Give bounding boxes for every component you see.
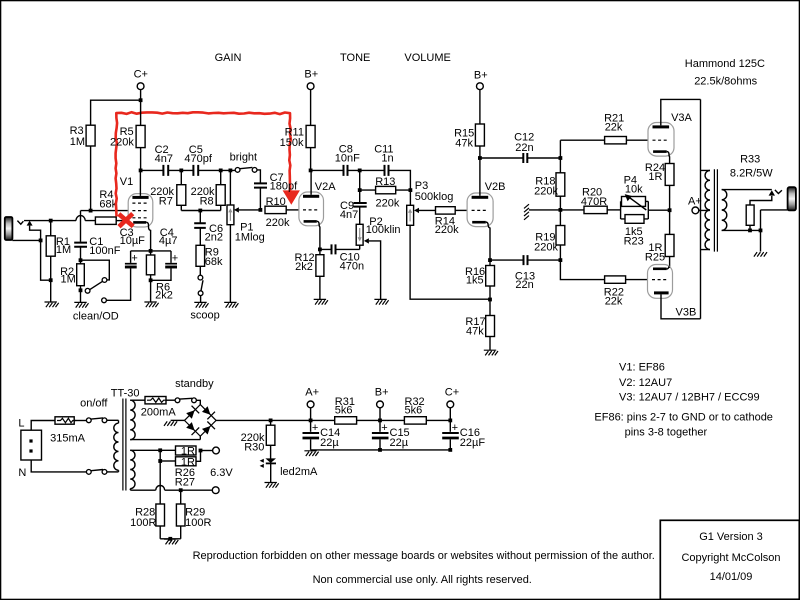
node R2 bottom <box>79 288 83 292</box>
switch standby <box>175 398 200 405</box>
potentiometer P2 <box>356 224 363 249</box>
red arrowhead <box>283 190 300 204</box>
svg-text:1n: 1n <box>381 152 393 164</box>
diode D1 <box>185 406 199 420</box>
svg-text:10k: 10k <box>625 184 643 196</box>
svg-text:R10: R10 <box>266 196 286 208</box>
speaker jack tip arrow <box>769 190 775 195</box>
ground under LED <box>265 483 279 488</box>
node R15 bottom <box>478 156 482 160</box>
svg-text:100nF: 100nF <box>89 245 120 257</box>
tube V3B <box>648 265 701 319</box>
wire anode rail <box>141 169 236 171</box>
input jack J1 <box>5 217 41 240</box>
wire cap ground bus <box>311 449 451 451</box>
node heater B <box>158 459 162 463</box>
red X mark <box>119 214 133 227</box>
ground under R1 <box>45 302 59 307</box>
resistor R21 <box>560 137 648 144</box>
capacitor C8 <box>344 165 348 176</box>
switch clean/OD <box>85 268 130 302</box>
svg-text:200mA: 200mA <box>141 407 177 419</box>
switch scoop <box>198 266 203 302</box>
node C15 ground <box>378 448 382 452</box>
resistor R30 <box>266 420 275 458</box>
resistor R28 <box>156 504 165 539</box>
svg-text:V3A: V3A <box>671 112 692 124</box>
svg-text:22µF: 22µF <box>460 437 486 449</box>
node R7 top <box>179 169 183 173</box>
svg-text:22k: 22k <box>605 296 623 308</box>
svg-text:150k: 150k <box>280 137 304 149</box>
terminal A+ <box>688 196 702 214</box>
svg-text:bright: bright <box>230 151 258 163</box>
resistor R29 <box>176 490 185 539</box>
switch on/off pole N <box>86 470 118 475</box>
wire jack sleeve down <box>760 210 762 252</box>
svg-text:V1: EF86: V1: EF86 <box>619 361 665 373</box>
resistor R32 <box>404 417 426 424</box>
svg-text:R23: R23 <box>624 236 644 248</box>
resistor R3 <box>86 125 95 146</box>
svg-text:2k2: 2k2 <box>295 261 313 273</box>
wire N <box>31 460 86 472</box>
svg-text:100klin: 100klin <box>366 224 401 236</box>
svg-text:220k: 220k <box>534 185 558 197</box>
capacitor C2 <box>163 165 168 176</box>
svg-text:+: + <box>452 422 458 434</box>
svg-text:TONE: TONE <box>340 52 370 64</box>
svg-text:8.2R/5W: 8.2R/5W <box>730 167 773 179</box>
supply terminal B+ <box>474 70 488 124</box>
node R26 right <box>199 449 203 453</box>
resistor R4 <box>95 217 116 224</box>
svg-text:100R: 100R <box>185 517 211 529</box>
ground under P1 <box>224 302 238 307</box>
resistor R11 <box>306 125 315 170</box>
node C12 right <box>559 156 563 160</box>
node R13 left <box>358 188 362 192</box>
resistor R9 <box>196 245 205 266</box>
transformer T1 core <box>123 399 126 491</box>
wire heater B to R27 <box>160 460 175 462</box>
chassis ground bridge <box>164 421 177 426</box>
svg-text:Copyright McColson: Copyright McColson <box>681 552 780 564</box>
node jack sleeve <box>39 239 43 243</box>
svg-text:scoop: scoop <box>190 310 219 322</box>
svg-text:47k: 47k <box>455 138 473 150</box>
supply terminal C+ <box>134 69 148 101</box>
wire sleeve to ground <box>41 240 51 280</box>
svg-text:C+: C+ <box>134 69 148 81</box>
node ground join <box>168 537 172 541</box>
resistor R13 <box>360 186 411 193</box>
svg-text:1Mlog: 1Mlog <box>235 232 265 244</box>
svg-text:V3B: V3B <box>676 306 697 318</box>
svg-text:+: + <box>381 422 387 434</box>
svg-text:Non commercial use only. All r: Non commercial use only. All rights rese… <box>313 574 532 586</box>
node A+ <box>309 419 313 423</box>
svg-text:B+: B+ <box>304 69 318 81</box>
wire main DC rail <box>216 419 450 421</box>
diode LED <box>260 458 276 482</box>
ground under R6 <box>144 302 158 307</box>
svg-text:VOLUME: VOLUME <box>404 52 450 64</box>
svg-text:clean/OD: clean/OD <box>73 310 119 322</box>
terminal 6.3V B <box>212 487 219 494</box>
P2 wiper arrow <box>364 238 381 299</box>
resistor R20 <box>560 206 620 213</box>
svg-text:V2: 12AU7: V2: 12AU7 <box>619 377 672 389</box>
svg-text:315mA: 315mA <box>50 432 86 444</box>
node R6 bottom <box>149 278 153 282</box>
svg-text:R30: R30 <box>244 441 264 453</box>
node V2B cathode <box>488 258 492 262</box>
svg-text:N: N <box>18 467 26 479</box>
svg-text:14/01/09: 14/01/09 <box>710 571 753 583</box>
supply terminal B+ <box>304 69 318 126</box>
svg-text:GAIN: GAIN <box>215 52 242 64</box>
svg-text:B+: B+ <box>375 386 389 398</box>
resistor R5 <box>136 100 145 170</box>
resistor R7 <box>177 170 186 210</box>
node heater A <box>158 448 162 452</box>
svg-text:68k: 68k <box>205 256 223 268</box>
ground under R28 R29 <box>164 539 178 544</box>
wire humdinger <box>159 450 161 461</box>
capacitor C3 <box>125 251 138 267</box>
capacitor C16 <box>442 420 459 450</box>
switch on/off pole L <box>74 418 118 423</box>
node C+ rail <box>448 419 452 423</box>
node R13 right <box>409 188 413 192</box>
svg-text:4n7: 4n7 <box>155 153 173 165</box>
node C6 top <box>198 209 202 213</box>
wire C12 row <box>480 157 561 159</box>
svg-text:220k: 220k <box>376 198 400 210</box>
svg-text:R7: R7 <box>159 195 173 207</box>
resistor R15 <box>475 124 484 158</box>
P1 wiper arrow <box>234 207 261 212</box>
svg-text:V2A: V2A <box>315 181 336 193</box>
resistor R17 <box>486 300 495 351</box>
wire down to R28 <box>159 461 161 504</box>
diode bridge <box>185 405 217 437</box>
svg-text:1R: 1R <box>648 171 662 183</box>
svg-text:EF86: pins 2-7 to GND or to ca: EF86: pins 2-7 to GND or to cathode <box>594 412 773 424</box>
wire C13 row <box>490 259 560 261</box>
svg-text:R27: R27 <box>175 477 195 489</box>
wire V2A cathode row <box>320 248 360 250</box>
svg-text:P3: P3 <box>415 180 428 192</box>
terminal C+ rail <box>445 386 459 420</box>
svg-text:470n: 470n <box>340 261 364 273</box>
copyright box <box>660 520 799 599</box>
resistor R6 <box>146 251 154 302</box>
terminal B+ rail <box>375 386 389 420</box>
svg-text:470pf: 470pf <box>184 153 212 165</box>
wire R27 to R26 join <box>196 451 201 462</box>
svg-text:B+: B+ <box>474 70 488 82</box>
svg-text:V2B: V2B <box>485 181 506 193</box>
resistor R14 <box>436 207 468 214</box>
wire R28 R29 join <box>160 538 181 540</box>
svg-text:22n: 22n <box>515 142 533 154</box>
wire C1 to switch contact <box>81 260 110 280</box>
resistor R26 <box>176 446 197 458</box>
svg-text:10µF: 10µF <box>120 235 146 247</box>
svg-text:1M: 1M <box>61 274 76 286</box>
tube V2B <box>467 158 493 260</box>
svg-text:2k2: 2k2 <box>155 290 173 302</box>
potentiometer P4 with R23 <box>621 194 670 223</box>
terminal A+ rail <box>305 386 319 420</box>
wire C8 node down <box>359 170 361 203</box>
svg-text:470R: 470R <box>581 196 607 208</box>
svg-text:1k5: 1k5 <box>466 275 484 287</box>
node C7 R10 <box>259 208 263 212</box>
svg-text:180pf: 180pf <box>270 181 298 193</box>
node R1 top <box>49 219 53 223</box>
svg-text:A+: A+ <box>305 386 319 398</box>
resistor R31 <box>335 417 357 424</box>
diode D2 <box>201 405 215 419</box>
capacitor C10 <box>332 244 336 254</box>
svg-text:Reproduction forbidden on othe: Reproduction forbidden on other message … <box>193 550 655 562</box>
node cathode mid <box>668 208 672 212</box>
ground under R17 <box>484 350 498 355</box>
svg-text:+: + <box>312 422 318 434</box>
node divider mid <box>559 208 563 212</box>
node R16 bottom <box>488 298 492 302</box>
ground under R2 <box>74 302 88 307</box>
capacitor C5 <box>193 165 198 176</box>
diode D4 <box>201 422 215 436</box>
node R8 top <box>219 169 223 173</box>
capacitor C6 <box>194 211 206 246</box>
node X <box>89 209 93 213</box>
svg-text:22.5k/8ohms: 22.5k/8ohms <box>694 76 757 88</box>
terminal 6.3V A <box>213 447 220 454</box>
capacitor C13 <box>524 255 528 265</box>
resistor R8 <box>216 170 225 210</box>
svg-text:500klog: 500klog <box>415 191 454 203</box>
tube V1 <box>128 170 153 251</box>
P3 wiper arrow <box>414 208 436 213</box>
resistor R25 <box>665 210 674 268</box>
transformer T2 secondary <box>722 190 772 231</box>
ground under R12 <box>314 299 328 304</box>
svg-text:pins 3-8 together: pins 3-8 together <box>625 426 708 438</box>
svg-text:22µ: 22µ <box>320 437 339 449</box>
node heater C <box>179 488 183 492</box>
wire R7 R8 bottoms <box>181 210 220 212</box>
capacitor C9 <box>353 203 366 224</box>
svg-text:1M: 1M <box>56 244 71 256</box>
transformer T1 secondary HT <box>130 400 200 439</box>
svg-text:220k: 220k <box>110 136 134 148</box>
svg-text:4µ7: 4µ7 <box>159 235 178 247</box>
tube V2A <box>299 170 324 249</box>
resistor R16 <box>486 260 495 299</box>
transformer T2 primary <box>699 170 710 249</box>
resistor R27 <box>176 456 197 468</box>
wire V1 cathode bus <box>131 250 171 252</box>
wire C+ rail to R3 <box>91 100 141 125</box>
wire L <box>31 421 55 431</box>
resistor R33 <box>746 196 772 230</box>
svg-text:on/off: on/off <box>80 397 108 409</box>
capacitor C15 <box>372 420 389 450</box>
wire R3 bottom to node X <box>90 146 92 211</box>
transformer T2 core <box>714 169 717 251</box>
node C8 out <box>358 169 362 173</box>
node R33 bottom <box>748 229 752 233</box>
wire node X <box>81 211 129 242</box>
svg-text:10nF: 10nF <box>335 152 360 164</box>
transformer T1 primary <box>114 420 119 472</box>
svg-text:5k6: 5k6 <box>335 404 353 416</box>
node V2A anode <box>309 169 313 173</box>
node B+ <box>378 419 382 423</box>
svg-text:V3: 12AU7 / 12BH7 / ECC99: V3: 12AU7 / 12BH7 / ECC99 <box>619 392 760 404</box>
node C+ <box>139 98 143 102</box>
ground under C14 <box>304 451 318 456</box>
svg-text:A+: A+ <box>688 196 702 208</box>
node C1 bottom <box>79 258 83 262</box>
svg-text:standby: standby <box>175 378 214 390</box>
svg-text:4n7: 4n7 <box>340 209 358 221</box>
switch bright <box>235 167 260 183</box>
wire to 6.3V terminal A <box>201 450 213 452</box>
svg-text:V1: V1 <box>120 176 133 188</box>
node V1 anode <box>139 169 143 173</box>
svg-text:R13: R13 <box>375 176 395 188</box>
wire R1 to ground <box>50 280 52 302</box>
svg-text:2n2: 2n2 <box>205 231 223 243</box>
capacitor C14 <box>303 420 320 450</box>
fuse F2 200mA <box>145 397 175 404</box>
svg-text:R8: R8 <box>200 195 214 207</box>
fuse F1 315mA <box>55 417 76 424</box>
svg-text:R25: R25 <box>645 251 665 263</box>
resistor R22 <box>605 276 648 283</box>
node P1 top <box>229 169 233 173</box>
potentiometer P1 <box>227 170 234 302</box>
svg-text:+: + <box>172 253 178 265</box>
transformer T1 heater winding <box>130 450 216 490</box>
node R1 bottom <box>49 278 53 282</box>
resistor R1 <box>46 221 55 281</box>
wire input tip <box>24 216 95 221</box>
wire coupling bus <box>560 140 604 279</box>
capacitor C11 <box>385 165 389 176</box>
svg-text:220k: 220k <box>534 241 558 253</box>
svg-text:+: + <box>131 253 137 265</box>
capacitor C4 <box>151 251 179 280</box>
svg-text:22n: 22n <box>515 279 533 291</box>
wire bridge minus <box>171 419 185 421</box>
resistor R12 <box>316 249 324 299</box>
capacitor C12 <box>523 153 527 163</box>
ground under P2 wiper <box>374 299 388 304</box>
red annotation path <box>116 112 291 216</box>
svg-text:1M: 1M <box>70 136 85 148</box>
resistor R19 <box>556 226 565 246</box>
speaker jack <box>761 187 796 210</box>
chassis ground speaker <box>754 252 767 257</box>
mains connector <box>21 430 42 460</box>
node C16 ground <box>448 448 452 452</box>
svg-text:22µ: 22µ <box>390 437 409 449</box>
node V2A cathode <box>318 248 322 252</box>
resistor R18 <box>556 173 565 196</box>
diode D3 <box>185 421 199 435</box>
wire R4 to V1 grid <box>116 220 128 222</box>
node sleeve <box>759 229 763 233</box>
node C13 right <box>559 258 563 262</box>
svg-text:220k: 220k <box>266 217 290 229</box>
svg-text:6.3V: 6.3V <box>210 467 233 479</box>
potentiometer P3 <box>407 205 490 299</box>
node R30 top <box>269 419 273 423</box>
svg-text:5k6: 5k6 <box>405 404 423 416</box>
resistor R24 <box>665 164 674 211</box>
svg-text:Hammond 125C: Hammond 125C <box>685 58 765 70</box>
svg-text:L: L <box>18 417 24 429</box>
wire anode to tone <box>311 170 411 205</box>
wire chassis ref <box>529 209 560 211</box>
node cathode <box>149 249 153 253</box>
ground under scoop <box>194 302 208 307</box>
resistor R10 <box>265 206 299 213</box>
tube V3A <box>648 99 701 163</box>
capacitor C1 <box>74 243 87 261</box>
svg-text:C+: C+ <box>445 386 459 398</box>
chassis ground tone <box>524 204 529 220</box>
svg-text:22k: 22k <box>605 122 623 134</box>
wire bridge bottom <box>199 436 201 439</box>
svg-text:G1 Version 3: G1 Version 3 <box>699 531 763 543</box>
svg-text:47k: 47k <box>466 326 484 338</box>
capacitor C7 <box>254 183 267 210</box>
svg-text:led2mA: led2mA <box>280 466 318 478</box>
svg-text:R33: R33 <box>740 153 760 165</box>
svg-text:220k: 220k <box>435 224 459 236</box>
transformer T2 primary lead <box>700 99 702 318</box>
svg-text:TT-30: TT-30 <box>111 387 140 399</box>
resistor R2 <box>77 260 85 302</box>
svg-text:100R: 100R <box>130 517 156 529</box>
